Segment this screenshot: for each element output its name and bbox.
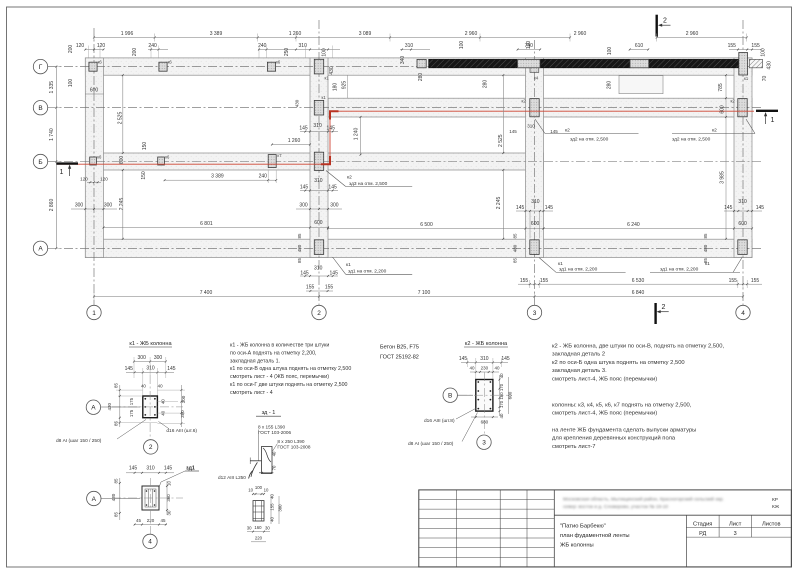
dim 1260 к7 to axis2 above Б bbox=[272, 144, 310, 146]
svg-text:зд1: зд1 bbox=[186, 466, 195, 472]
axis line В bbox=[48, 107, 762, 109]
column к1 on А axis 3 bbox=[530, 240, 539, 255]
foundation strip axis 4 bbox=[734, 58, 752, 258]
foundation strip axis В (right) bbox=[328, 98, 752, 117]
svg-text:100: 100 bbox=[607, 47, 613, 56]
svg-text:2 960: 2 960 bbox=[574, 31, 587, 37]
svg-text:145: 145 bbox=[300, 270, 309, 276]
axis circle 3 bbox=[527, 305, 541, 319]
section mark 2 top arrow bbox=[660, 24, 671, 26]
svg-text:ГОСТ 25192-82: ГОСТ 25192-82 bbox=[380, 355, 419, 361]
section mark 2 top bar bbox=[656, 15, 658, 37]
svg-text:40: 40 bbox=[272, 451, 277, 456]
leader к1/зд1 at axis4-А bbox=[733, 258, 742, 273]
svg-text:к2: к2 bbox=[565, 128, 570, 134]
red thick elbow bottom of jog bbox=[321, 156, 330, 164]
svg-text:к2: к2 bbox=[731, 99, 736, 104]
axis line 2 bbox=[318, 20, 320, 305]
svg-text:180: 180 bbox=[333, 83, 339, 92]
svg-text:40: 40 bbox=[469, 366, 475, 371]
svg-text:к2: к2 bbox=[522, 99, 527, 104]
svg-text:к1 по оси-В одна штука поднять: к1 по оси-В одна штука поднять на отметк… bbox=[230, 366, 351, 372]
svg-text:300: 300 bbox=[154, 355, 163, 361]
svg-text:600: 600 bbox=[314, 220, 323, 226]
detail к2 extension verticals bbox=[466, 358, 468, 367]
dim 6500/600 row bbox=[328, 228, 526, 230]
svg-text:40: 40 bbox=[141, 384, 146, 389]
detail зд1-plan dim 145-310-145 bbox=[126, 472, 174, 474]
svg-text:А: А bbox=[92, 496, 97, 503]
axis line 1 bbox=[93, 28, 95, 305]
svg-text:70: 70 bbox=[272, 465, 277, 470]
svg-text:1: 1 bbox=[60, 169, 64, 176]
detail к1 center dash lines bbox=[149, 375, 151, 440]
svg-text:1 996: 1 996 bbox=[121, 31, 134, 37]
svg-text:Московская область, Мытищински: Московская область, Мытищинский район, К… bbox=[563, 496, 724, 503]
left dimension column bbox=[55, 67, 57, 249]
svg-text:250: 250 bbox=[284, 48, 290, 57]
svg-text:d8 АI (шаг 150 / 250): d8 АI (шаг 150 / 250) bbox=[56, 438, 102, 444]
svg-text:310: 310 bbox=[299, 43, 308, 49]
svg-text:3: 3 bbox=[734, 531, 737, 537]
svg-text:для крепления деревянных конст: для крепления деревянных конструкций пол… bbox=[552, 435, 676, 442]
dim 300-300 axis1 bbox=[71, 208, 117, 210]
detail зд-1 ladder right dims bbox=[270, 496, 272, 524]
svg-text:3 985: 3 985 bbox=[720, 171, 726, 184]
svg-text:145: 145 bbox=[501, 356, 510, 362]
column к1 on В axis 2 bbox=[314, 100, 323, 115]
axis circle 1 bbox=[87, 305, 101, 319]
svg-text:3: 3 bbox=[533, 310, 537, 317]
detail к1 right dim line bbox=[180, 385, 182, 427]
detail к1 rebar dots bbox=[144, 398, 146, 400]
hatched wall piece right of axis 4 bbox=[749, 59, 762, 67]
svg-text:7 100: 7 100 bbox=[418, 290, 431, 296]
svg-text:А: А bbox=[38, 246, 43, 253]
svg-text:Б: Б bbox=[38, 159, 42, 166]
column on Г x421 bbox=[417, 59, 426, 67]
detail к1 dim 145-310-145 bbox=[126, 371, 174, 373]
svg-text:2 960: 2 960 bbox=[465, 31, 478, 37]
column к4 on Г bbox=[518, 59, 541, 67]
svg-text:КР: КР bbox=[772, 497, 778, 503]
detail к1 leader d8 bbox=[117, 420, 146, 440]
dim 145-310-145 axis3 below Б bbox=[516, 210, 553, 212]
svg-text:зд1 на отм. 2,200: зд1 на отм. 2,200 bbox=[348, 269, 387, 275]
dim 145-310-145 axis4 below Б bbox=[724, 210, 762, 212]
svg-text:310: 310 bbox=[314, 265, 323, 271]
svg-text:240: 240 bbox=[259, 174, 268, 180]
dim 145-310-145 axis2 В-Б bbox=[300, 131, 338, 133]
svg-text:2: 2 bbox=[317, 310, 321, 317]
detail к2 dim 40-230-40 bbox=[470, 371, 499, 373]
svg-text:40: 40 bbox=[161, 399, 166, 404]
svg-text:85: 85 bbox=[703, 233, 708, 239]
dim 6240/600 row bbox=[544, 228, 735, 230]
svg-text:1: 1 bbox=[771, 117, 775, 124]
svg-text:10: 10 bbox=[264, 488, 269, 493]
svg-text:ГОСТ 103-2008: ГОСТ 103-2008 bbox=[277, 445, 311, 450]
svg-text:d16 АIII (шт.6): d16 АIII (шт.6) bbox=[166, 428, 197, 434]
vertical dim line 1240 right of axis2 bbox=[360, 117, 362, 155]
detail к1 extension verticals bbox=[133, 357, 135, 378]
svg-text:ГОСТ 103-2006: ГОСТ 103-2006 bbox=[258, 430, 292, 435]
svg-text:120: 120 bbox=[76, 43, 85, 49]
svg-text:310: 310 bbox=[527, 124, 535, 129]
svg-text:к1: к1 bbox=[744, 76, 749, 81]
detail зд1-plan column rect bbox=[142, 486, 159, 510]
svg-text:смотреть лист - 4: смотреть лист - 4 bbox=[230, 390, 273, 396]
svg-text:310: 310 bbox=[405, 43, 414, 49]
svg-text:340: 340 bbox=[400, 56, 406, 65]
black wall strip 2 on Г bbox=[541, 59, 630, 67]
axis line 4 bbox=[742, 20, 744, 305]
svg-text:к1 - ЖБ колонна: к1 - ЖБ колонна bbox=[129, 341, 172, 347]
svg-text:300: 300 bbox=[181, 395, 186, 403]
svg-text:2: 2 bbox=[663, 18, 667, 25]
svg-text:230: 230 bbox=[481, 366, 489, 371]
svg-text:480: 480 bbox=[513, 244, 518, 252]
opening rectangle below Г strip bbox=[619, 76, 663, 94]
svg-text:к6: к6 bbox=[98, 60, 103, 65]
detail зд1-plan right dims bbox=[166, 481, 168, 515]
title block main divider bbox=[553, 490, 555, 567]
svg-text:смотреть лист-7: смотреть лист-7 bbox=[552, 444, 596, 450]
svg-text:6 240: 6 240 bbox=[627, 222, 640, 228]
svg-text:смотреть лист - 4 (ЖБ пояс, пе: смотреть лист - 4 (ЖБ пояс, перемычки) bbox=[230, 374, 329, 380]
svg-text:85: 85 bbox=[513, 258, 518, 264]
svg-text:2 860: 2 860 bbox=[49, 199, 55, 212]
svg-text:40: 40 bbox=[499, 413, 504, 418]
svg-text:1 740: 1 740 bbox=[49, 128, 55, 141]
foundation strip axis Г bbox=[85, 58, 752, 75]
svg-text:колонны: к3, к4, к5, к6, к7 п: колонны: к3, к4, к5, к6, к7 поднять на о… bbox=[552, 403, 692, 409]
detail к2 leader d8 bbox=[462, 413, 478, 442]
detail к1 circle А bbox=[101, 406, 140, 408]
axis line А bbox=[48, 247, 762, 249]
svg-text:зд2 на отм. 2,500: зд2 на отм. 2,500 bbox=[570, 137, 609, 143]
dim 120-120 axis1 under Б bbox=[87, 181, 101, 183]
svg-text:30: 30 bbox=[166, 510, 171, 515]
black wall strip 1 on Г bbox=[429, 59, 517, 67]
detail к2 center dash bbox=[483, 372, 485, 436]
svg-text:зд1 на отм. 2,200: зд1 на отм. 2,200 bbox=[660, 267, 699, 273]
svg-text:d16 АIII (шт.8): d16 АIII (шт.8) bbox=[424, 418, 455, 424]
svg-text:145: 145 bbox=[299, 125, 308, 131]
top row2 extension drops bbox=[87, 46, 89, 58]
svg-text:680: 680 bbox=[481, 419, 489, 424]
title block blurred project text bbox=[563, 496, 724, 511]
svg-text:600: 600 bbox=[720, 105, 726, 114]
svg-text:1 260: 1 260 bbox=[289, 31, 302, 37]
svg-text:310: 310 bbox=[146, 365, 155, 371]
detail к1 dim 300-300 bbox=[134, 361, 166, 363]
svg-text:155: 155 bbox=[269, 503, 274, 511]
detail к2 bottom dim 680 bbox=[471, 416, 498, 418]
svg-text:1 240: 1 240 bbox=[354, 128, 360, 141]
svg-text:40: 40 bbox=[158, 384, 163, 389]
svg-text:север: восток и д. Словерово,: север: восток и д. Словерово, участок № … bbox=[563, 504, 668, 510]
svg-text:480: 480 bbox=[297, 244, 302, 252]
svg-text:145: 145 bbox=[459, 356, 468, 362]
svg-text:к6: к6 bbox=[276, 60, 281, 65]
svg-text:300: 300 bbox=[138, 355, 147, 361]
svg-text:240: 240 bbox=[148, 43, 157, 49]
foundation strip axis 3 bbox=[526, 58, 544, 258]
svg-text:610: 610 bbox=[635, 43, 644, 49]
svg-text:155: 155 bbox=[520, 278, 529, 284]
svg-text:85: 85 bbox=[113, 421, 118, 427]
column к6 on Б axis 1 bbox=[90, 157, 97, 165]
svg-text:2: 2 bbox=[662, 304, 666, 311]
svg-text:145: 145 bbox=[724, 205, 733, 211]
svg-text:Стадия: Стадия bbox=[693, 521, 712, 527]
detail зд-1 ladder bottom dims bbox=[247, 531, 270, 533]
svg-text:ЖБ колонны: ЖБ колонны bbox=[560, 543, 594, 549]
svg-text:40: 40 bbox=[269, 517, 274, 522]
dim 145-310-145 axis2 below Б bbox=[300, 190, 338, 192]
svg-text:к6: к6 bbox=[97, 155, 102, 160]
svg-text:430: 430 bbox=[329, 66, 335, 75]
svg-text:Лист: Лист bbox=[729, 521, 742, 527]
detail к2 dim 145-310-145 bbox=[461, 362, 508, 364]
svg-text:10: 10 bbox=[166, 481, 171, 486]
column к1 on Г axis 2 bbox=[314, 59, 323, 74]
svg-text:155: 155 bbox=[751, 278, 760, 284]
svg-text:175: 175 bbox=[129, 397, 134, 405]
svg-text:380: 380 bbox=[278, 504, 283, 512]
bottom dim row 7400/7100/6840 bbox=[94, 296, 743, 298]
svg-text:85: 85 bbox=[113, 512, 118, 518]
svg-text:1: 1 bbox=[92, 310, 96, 317]
section mark 1 left arrow bbox=[69, 167, 71, 177]
svg-text:d12 АIII L250: d12 АIII L250 bbox=[218, 475, 246, 480]
svg-text:6 840: 6 840 bbox=[632, 290, 645, 296]
svg-text:3 089: 3 089 bbox=[359, 31, 372, 37]
svg-text:220: 220 bbox=[255, 536, 263, 541]
svg-text:к2: к2 bbox=[712, 128, 717, 134]
svg-text:40: 40 bbox=[494, 366, 500, 371]
column к2 on Б axis 2 bbox=[314, 152, 323, 170]
interior strip lines axis 3 between Б and А bbox=[529, 211, 531, 238]
svg-text:150: 150 bbox=[141, 171, 147, 180]
leader к2/зд3 at axis2-Б bbox=[326, 171, 346, 187]
svg-text:на ленте ЖБ фундамента сделать: на ленте ЖБ фундамента сделать выпуски а… bbox=[552, 428, 696, 434]
svg-text:10: 10 bbox=[248, 488, 253, 493]
svg-text:2: 2 bbox=[149, 444, 153, 451]
section line 1-1 red polyline bbox=[57, 111, 754, 164]
svg-text:А: А bbox=[91, 405, 96, 412]
svg-text:925: 925 bbox=[342, 81, 348, 90]
title block left table bbox=[419, 499, 555, 501]
svg-text:85: 85 bbox=[297, 258, 302, 264]
svg-text:310: 310 bbox=[480, 356, 489, 362]
svg-text:145: 145 bbox=[509, 129, 517, 134]
detail к1 column rect bbox=[143, 396, 158, 418]
detail зд1-plan circle А bbox=[101, 497, 140, 499]
svg-text:d8 АI (шаг 150 / 250): d8 АI (шаг 150 / 250) bbox=[408, 441, 454, 447]
section mark 2 bottom bar bbox=[654, 303, 656, 324]
leader к1/зд1 at axis2-А bbox=[333, 257, 346, 274]
svg-text:к2 - ЖБ колонна: к2 - ЖБ колонна bbox=[465, 341, 508, 347]
svg-text:к1: к1 bbox=[325, 76, 330, 81]
svg-text:к2: к2 bbox=[347, 175, 352, 181]
svg-text:170: 170 bbox=[499, 400, 504, 408]
svg-text:155: 155 bbox=[729, 278, 738, 284]
svg-text:280: 280 bbox=[418, 73, 424, 82]
svg-text:к2 - ЖБ колонна, две штуки по: к2 - ЖБ колонна, две штуки по оси-В, под… bbox=[552, 344, 724, 350]
svg-text:2 960: 2 960 bbox=[686, 31, 699, 37]
svg-text:240: 240 bbox=[258, 43, 267, 49]
detail к1 leader d16 bbox=[158, 421, 169, 428]
svg-text:100: 100 bbox=[526, 41, 532, 50]
svg-text:зд2 на отм. 2,500: зд2 на отм. 2,500 bbox=[672, 137, 711, 143]
leader к1/зд1 at axis3-А bbox=[539, 258, 556, 273]
svg-text:В: В bbox=[38, 105, 42, 112]
svg-text:по оси-А поднять на отметку 2,: по оси-А поднять на отметку 2,200, bbox=[230, 350, 317, 356]
axis line Б bbox=[48, 161, 762, 163]
svg-text:100: 100 bbox=[255, 485, 263, 490]
dim 600 under axis1 Г bbox=[85, 93, 103, 95]
detail зд1-plan circle 4 bbox=[143, 534, 157, 548]
svg-text:150: 150 bbox=[142, 142, 148, 151]
detail зд1-plan left dims bbox=[119, 478, 121, 520]
svg-text:600: 600 bbox=[90, 88, 99, 94]
svg-text:145: 145 bbox=[545, 205, 554, 211]
detail зд1-plan inner plate lines bbox=[145, 489, 156, 507]
svg-text:смотреть лист-4, ЖБ пояс (пер: смотреть лист-4, ЖБ пояс (перемычки) bbox=[552, 376, 657, 382]
svg-text:85: 85 bbox=[113, 478, 118, 484]
foundation strip axis Б bbox=[85, 153, 543, 170]
svg-text:600: 600 bbox=[738, 221, 747, 227]
svg-text:145: 145 bbox=[330, 270, 339, 276]
top dim row 1 extension lines bbox=[93, 34, 95, 42]
dim 6801/600 row bbox=[104, 227, 311, 229]
detail к2 rebar dots bbox=[477, 381, 479, 383]
axis circle Б bbox=[33, 154, 47, 168]
svg-text:Бетон В25, F75: Бетон В25, F75 bbox=[380, 345, 419, 351]
column к7 on Б x267 bbox=[268, 155, 276, 168]
svg-text:к1 - ЖБ колонна в количестве т: к1 - ЖБ колонна в количестве три штуки bbox=[230, 343, 329, 349]
svg-text:к1 по оси-Г две штуки поднять: к1 по оси-Г две штуки поднять на отметку… bbox=[230, 382, 348, 388]
svg-text:6 801: 6 801 bbox=[200, 221, 213, 227]
svg-text:430: 430 bbox=[295, 99, 300, 107]
detail зд1-plan center dash bbox=[150, 478, 152, 534]
column on Г x639 bbox=[630, 59, 649, 67]
svg-text:600: 600 bbox=[508, 391, 513, 399]
column к1 on А axis 2 bbox=[314, 240, 323, 255]
svg-text:280: 280 bbox=[483, 80, 489, 89]
svg-text:смотреть лист-4, ЖБ пояс (пер: смотреть лист-4, ЖБ пояс (перемычки) bbox=[552, 411, 657, 417]
svg-text:145: 145 bbox=[164, 465, 173, 471]
svg-text:100: 100 bbox=[68, 79, 74, 88]
column к6 on Б x161 bbox=[158, 157, 165, 165]
svg-text:к4: к4 bbox=[534, 76, 539, 81]
axis circle Г bbox=[33, 59, 47, 73]
detail зд-1 weld sketch bbox=[258, 430, 260, 462]
svg-text:45: 45 bbox=[160, 518, 166, 523]
svg-text:180: 180 bbox=[499, 392, 504, 400]
svg-text:КЖ: КЖ bbox=[772, 504, 780, 510]
svg-text:300: 300 bbox=[330, 203, 339, 209]
svg-text:120: 120 bbox=[80, 177, 88, 182]
svg-text:155: 155 bbox=[540, 278, 549, 284]
detail к2 circle В bbox=[457, 394, 473, 396]
svg-text:145: 145 bbox=[328, 184, 337, 190]
section mark 1 right bar bbox=[756, 110, 778, 112]
svg-text:300: 300 bbox=[75, 203, 84, 209]
detail к2 circle 3 bbox=[477, 435, 491, 449]
detail зд1-plan bottom dim 45-220-45 bbox=[134, 524, 167, 526]
title block outer bbox=[419, 490, 792, 567]
svg-text:170: 170 bbox=[499, 383, 504, 391]
svg-text:310: 310 bbox=[313, 123, 322, 129]
svg-text:зд3 на отм. 2,500: зд3 на отм. 2,500 bbox=[349, 181, 388, 187]
svg-text:100: 100 bbox=[322, 48, 328, 57]
svg-text:Листов: Листов bbox=[762, 521, 780, 527]
svg-text:к2 по оси-Б одна штука поднять: к2 по оси-Б одна штука поднять на отметк… bbox=[552, 360, 685, 366]
detail к1 left dim line bbox=[119, 385, 121, 427]
svg-text:85: 85 bbox=[297, 233, 302, 239]
detail к2 right dims bbox=[499, 375, 501, 416]
svg-text:145: 145 bbox=[129, 465, 138, 471]
svg-text:40: 40 bbox=[499, 373, 504, 378]
red thick elbow top of jog bbox=[330, 111, 339, 119]
svg-text:120: 120 bbox=[100, 177, 108, 182]
leader к2/зд2 at axis3-В bbox=[535, 119, 545, 134]
svg-text:160: 160 bbox=[254, 525, 262, 530]
svg-text:310: 310 bbox=[146, 465, 155, 471]
svg-text:785: 785 bbox=[718, 83, 724, 92]
svg-text:7 400: 7 400 bbox=[200, 290, 213, 296]
svg-text:к1: к1 bbox=[558, 261, 563, 267]
top dim row 1 line bbox=[94, 37, 570, 39]
svg-text:200: 200 bbox=[132, 48, 138, 57]
svg-text:430: 430 bbox=[107, 403, 112, 411]
svg-text:6 500: 6 500 bbox=[420, 222, 433, 228]
detail зд-1 ladder top dims bbox=[253, 493, 264, 495]
dim 310/145/155 below А at axis2 bbox=[300, 275, 338, 277]
detail к2 leader d16 bbox=[456, 408, 477, 419]
svg-text:310: 310 bbox=[738, 199, 747, 205]
svg-text:к6: к6 bbox=[168, 60, 173, 65]
svg-text:300: 300 bbox=[104, 203, 113, 209]
detail к1 ext connectors bbox=[116, 389, 143, 391]
svg-text:145: 145 bbox=[756, 205, 765, 211]
svg-text:зд1 на отм. 2,200: зд1 на отм. 2,200 bbox=[559, 267, 598, 273]
bottom dim row 155/6530/155 bbox=[518, 283, 762, 285]
column к1 on А axis 4 bbox=[738, 240, 747, 255]
axis circle А bbox=[33, 241, 47, 255]
svg-text:145: 145 bbox=[167, 366, 176, 372]
svg-text:2 245: 2 245 bbox=[496, 197, 502, 210]
column к6 on Г x271 bbox=[267, 62, 275, 71]
svg-text:175: 175 bbox=[129, 409, 134, 417]
svg-text:план фудаментной ленты: план фудаментной ленты bbox=[560, 532, 630, 539]
svg-text:45: 45 bbox=[136, 518, 142, 523]
svg-text:к6: к6 bbox=[165, 155, 170, 160]
svg-text:480: 480 bbox=[703, 244, 708, 252]
svg-text:310: 310 bbox=[314, 178, 323, 184]
notch under к4 bbox=[530, 68, 539, 73]
svg-text:100: 100 bbox=[459, 41, 465, 50]
column к1 on Г axis 4 bbox=[739, 53, 748, 76]
svg-text:4: 4 bbox=[741, 310, 745, 317]
axis circle 2 bbox=[312, 305, 326, 319]
svg-text:155: 155 bbox=[325, 284, 334, 290]
svg-text:600: 600 bbox=[119, 156, 125, 165]
axis line Г bbox=[48, 66, 762, 68]
